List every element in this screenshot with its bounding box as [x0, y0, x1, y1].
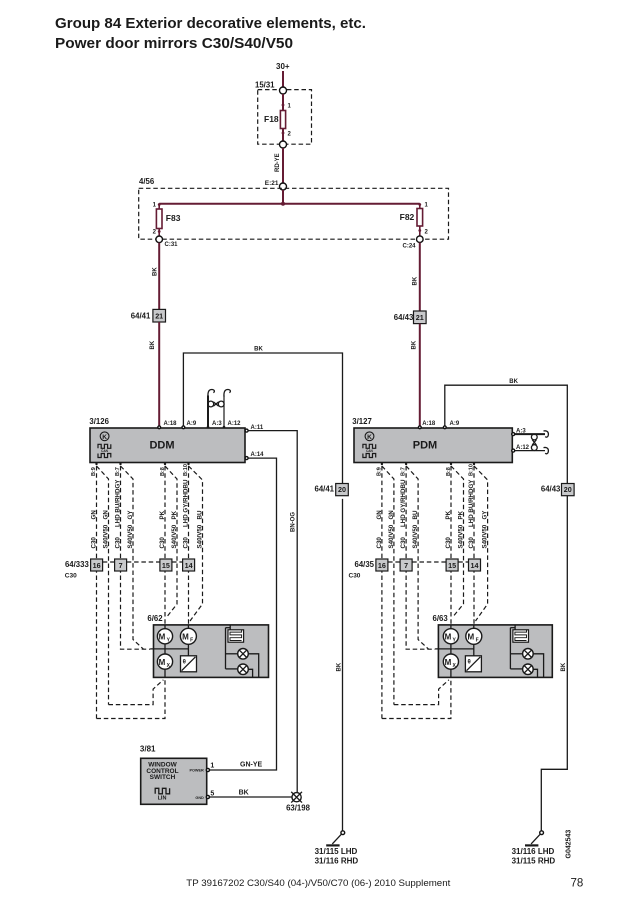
- wire dashed col3r C30 LHD GY/RHDBU: [400, 466, 435, 649]
- switch LIN symbol: [155, 788, 169, 801]
- wire dashed col6r S40/V50 PK: [451, 466, 465, 618]
- svg-text:E:21: E:21: [265, 180, 279, 187]
- svg-text:BK: BK: [412, 276, 418, 285]
- svg-text:63/198: 63/198: [286, 804, 311, 813]
- svg-text:BK: BK: [150, 340, 156, 349]
- wire dashed col2r S40/V50 GN: [382, 466, 395, 705]
- PDM CAN symbol: [363, 444, 376, 457]
- svg-text:15: 15: [448, 561, 456, 570]
- svg-text:7: 7: [119, 561, 123, 570]
- svg-text:64/41: 64/41: [314, 485, 334, 494]
- svg-text:PK: PK: [445, 510, 452, 519]
- svg-text:S40/V50: S40/V50: [482, 524, 489, 548]
- svg-text:GY: GY: [482, 510, 489, 520]
- mirror assembly 6/63: [433, 614, 553, 677]
- svg-text:BU: BU: [197, 510, 204, 519]
- svg-text:2: 2: [153, 230, 157, 236]
- wire dashed col8r S40/V50 GY: [474, 466, 489, 621]
- left chassis ground 31/115: [315, 831, 359, 866]
- DDM CAN symbol: [98, 444, 111, 457]
- wire bus F83-F82: [159, 203, 420, 205]
- svg-text:BK: BK: [152, 267, 158, 276]
- wire GN-YE switch to A:14 riser: [240, 761, 263, 768]
- svg-text:C30: C30: [159, 537, 166, 549]
- svg-text:PDM: PDM: [413, 440, 437, 452]
- PDM pin A:12: [512, 445, 530, 452]
- svg-text:DDM: DDM: [149, 440, 174, 452]
- svg-text:21: 21: [155, 311, 163, 320]
- wire dashed col8 S40/V50 BU: [189, 466, 204, 621]
- wire BK C:31 to connector 64/41: [152, 243, 159, 309]
- svg-text:C30: C30: [183, 537, 190, 549]
- node C:24: [402, 236, 423, 250]
- wire dashed MX return col1r: [382, 680, 451, 719]
- svg-text:15: 15: [162, 561, 170, 570]
- svg-text:S40/V50: S40/V50: [171, 524, 178, 548]
- wire 30+ feed: [282, 71, 284, 87]
- lamp 2 6/62: [238, 664, 249, 675]
- svg-text:CAN: CAN: [101, 449, 109, 453]
- connector 64/43 pin 20: [541, 484, 574, 496]
- svg-text:64/43: 64/43: [394, 313, 414, 322]
- node E:21: [265, 180, 287, 190]
- svg-text:31/116 LHD: 31/116 LHD: [512, 847, 555, 856]
- svg-text:1: 1: [288, 104, 292, 110]
- svg-text:GY: GY: [127, 510, 134, 520]
- svg-text:64/41: 64/41: [131, 312, 151, 321]
- svg-text:BK: BK: [337, 662, 343, 671]
- svg-text:θ: θ: [467, 660, 470, 666]
- svg-text:G042543: G042543: [566, 830, 573, 859]
- wire dashed col7r C30 LHD BU/RHDGY: [468, 466, 475, 625]
- svg-text:θ: θ: [183, 660, 186, 666]
- svg-text:20: 20: [338, 485, 346, 494]
- wire RD-YE to E:21: [275, 148, 283, 183]
- svg-text:F18: F18: [264, 114, 279, 124]
- svg-text:BU: BU: [412, 510, 419, 519]
- svg-text:C:24: C:24: [402, 244, 416, 250]
- connector 64/41 pin 20: [314, 484, 348, 496]
- svg-text:GN: GN: [91, 510, 98, 520]
- twisted pair PDM A:3 A:12: [514, 431, 549, 454]
- fuse F83: [153, 203, 181, 237]
- svg-text:3/81: 3/81: [140, 744, 156, 753]
- lamp 1 6/63: [523, 649, 534, 660]
- wire dashed col3 C30 LHD BU/RHDGY: [115, 466, 151, 649]
- DDM pin A:14: [245, 452, 264, 460]
- svg-text:TP 39167202 C30/S40 (04-)/V50/: TP 39167202 C30/S40 (04-)/V50/C70 (06-) …: [186, 878, 451, 888]
- wire dashed col4r S40/V50 BU: [406, 466, 429, 649]
- wire dashed col5 C30 PK: [159, 466, 166, 625]
- DDM pin A:11: [245, 425, 264, 432]
- motor MX 6/63: [443, 644, 458, 678]
- wire BK 64/43 to PDM A:18: [411, 324, 419, 427]
- switch pin POWER 1: [189, 763, 214, 773]
- svg-text:SWITCH: SWITCH: [150, 774, 176, 781]
- motor MX 6/62: [157, 644, 172, 678]
- PDM pin labels bottom: [376, 463, 475, 476]
- svg-text:A:12: A:12: [228, 421, 242, 427]
- svg-text:BK: BK: [254, 347, 263, 353]
- svg-text:S40/V50: S40/V50: [412, 524, 419, 548]
- svg-text:Power door mirrors C30/S40/V50: Power door mirrors C30/S40/V50: [55, 36, 293, 52]
- svg-text:M: M: [159, 658, 166, 667]
- wire dashed col7 C30 LHD GY/RHDBU: [183, 466, 190, 625]
- wire node to F18 pin 1: [282, 94, 284, 111]
- svg-text:64/35: 64/35: [354, 560, 374, 569]
- switch module 3/81: [140, 744, 207, 804]
- wire E:21 to bus: [282, 190, 284, 205]
- svg-text:31/116 RHD: 31/116 RHD: [315, 856, 359, 865]
- svg-text:2: 2: [425, 230, 429, 236]
- title: [55, 16, 366, 52]
- svg-text:1: 1: [210, 763, 214, 770]
- wire dashed M_X return col1: [97, 680, 166, 719]
- svg-text:PK: PK: [159, 510, 166, 519]
- wire dashed col2 S40/V50 GN: [97, 466, 110, 705]
- svg-text:C30: C30: [468, 537, 475, 549]
- svg-text:14: 14: [471, 561, 479, 570]
- wire F18 pin 2 to node: [282, 129, 284, 142]
- right chassis ground 31/116: [512, 831, 556, 866]
- PDM K symbol: [365, 432, 374, 441]
- svg-text:M: M: [182, 633, 189, 642]
- connector 64/333 C30 row: [65, 559, 195, 580]
- wire BK DDM A:9 to ground run: [183, 347, 342, 487]
- svg-text:M: M: [445, 658, 452, 667]
- svg-text:S40/V50: S40/V50: [127, 524, 134, 548]
- wire BK to right chassis ground: [541, 496, 567, 831]
- lamp wiring 6/63: [510, 628, 543, 678]
- svg-text:S40/V50: S40/V50: [388, 524, 395, 548]
- diagram id G042543: [566, 830, 573, 859]
- svg-text:LHD BU/RHDGY: LHD BU/RHDGY: [115, 479, 122, 527]
- svg-text:S40/V50: S40/V50: [103, 524, 110, 548]
- svg-text:LHD GY/RHDBU: LHD GY/RHDBU: [183, 479, 190, 527]
- svg-text:BK: BK: [411, 340, 417, 349]
- lamp 2 6/63: [523, 664, 534, 675]
- svg-text:GN: GN: [103, 510, 110, 520]
- svg-text:M: M: [467, 633, 474, 642]
- svg-text:PK: PK: [458, 510, 465, 519]
- node at 15/31 output: [280, 141, 287, 148]
- node C:31: [156, 236, 178, 248]
- svg-text:M: M: [159, 633, 166, 642]
- DDM K symbol: [100, 432, 109, 441]
- wire MF bottom and left stub 6/62: [150, 644, 188, 656]
- svg-text:C30: C30: [349, 573, 361, 580]
- svg-text:F83: F83: [166, 213, 181, 223]
- svg-text:Group 84 Exterior decorative e: Group 84 Exterior decorative elements, e…: [55, 16, 366, 32]
- svg-text:6/63: 6/63: [433, 614, 449, 623]
- svg-text:C:31: C:31: [165, 242, 179, 248]
- fuse F18: [264, 104, 292, 138]
- DDM pin labels top: [158, 421, 241, 429]
- svg-text:F: F: [476, 638, 479, 644]
- svg-text:C30: C30: [65, 573, 77, 580]
- svg-text:C30: C30: [91, 537, 98, 549]
- DDM pin labels bottom: [91, 463, 190, 476]
- wire BK 64/41 to DDM A:18: [150, 322, 159, 427]
- connector 64/35 C30 row: [349, 559, 481, 580]
- svg-text:4/56: 4/56: [139, 177, 155, 186]
- svg-text:M: M: [445, 633, 452, 642]
- svg-text:F82: F82: [400, 212, 415, 222]
- svg-text:BK: BK: [239, 790, 249, 797]
- wire dashed col1r C30 GN: [376, 466, 383, 719]
- svg-text:21: 21: [416, 313, 424, 322]
- mirror assembly 6/62: [147, 614, 268, 677]
- svg-text:3/127: 3/127: [352, 417, 372, 426]
- motor MF 6/62: [180, 625, 196, 644]
- svg-text:GN: GN: [376, 510, 383, 520]
- svg-text:31/115 LHD: 31/115 LHD: [315, 847, 358, 856]
- lamp 1 6/62: [238, 649, 249, 660]
- node 30+ supply label: [276, 62, 290, 71]
- svg-text:3/126: 3/126: [89, 417, 109, 426]
- svg-text:LHD BU/RHDGY: LHD BU/RHDGY: [468, 479, 475, 527]
- svg-text:BK: BK: [509, 379, 518, 385]
- svg-text:C30: C30: [376, 537, 383, 549]
- svg-text:20: 20: [564, 485, 572, 494]
- svg-text:15/31: 15/31: [255, 81, 275, 90]
- wire MF bottom and left stub 6/63: [435, 644, 474, 656]
- node at 15/31 input: [280, 87, 287, 94]
- twisted pair DDM A:3 A:12: [208, 389, 230, 428]
- svg-text:1: 1: [425, 203, 429, 209]
- svg-text:A:14: A:14: [251, 452, 265, 458]
- wire dashed col6 S40/V50 PK: [165, 466, 178, 618]
- svg-text:1: 1: [153, 203, 157, 209]
- ground point 63/198: [286, 792, 311, 813]
- wire BN-OG DDM A:11 to ground point 63/198: [248, 431, 298, 793]
- svg-text:C30: C30: [115, 537, 122, 549]
- svg-text:S40/V50: S40/V50: [458, 524, 465, 548]
- svg-text:14: 14: [185, 561, 193, 570]
- PDM pin A:3: [512, 428, 527, 435]
- lamp wiring 6/62: [226, 628, 259, 678]
- heater element 6/63: [513, 625, 529, 642]
- svg-text:GND: GND: [195, 796, 204, 800]
- svg-text:A:3: A:3: [516, 428, 526, 434]
- svg-text:64/43: 64/43: [541, 485, 561, 494]
- svg-text:PK: PK: [171, 510, 178, 519]
- fuse F82: [400, 203, 429, 237]
- svg-text:S40/V50: S40/V50: [197, 524, 204, 548]
- PDM pin labels top: [418, 421, 459, 429]
- svg-text:CAN: CAN: [366, 449, 374, 453]
- svg-text:30+: 30+: [276, 62, 290, 71]
- wire BK to left chassis ground: [337, 499, 343, 831]
- svg-text:LIN: LIN: [158, 796, 167, 802]
- temp sensor 6/63: [465, 656, 481, 672]
- svg-text:A:9: A:9: [450, 421, 460, 427]
- motor MF 6/63: [466, 625, 482, 644]
- temp sensor 6/62: [181, 656, 197, 672]
- svg-text:LHD GY/RHDBU: LHD GY/RHDBU: [400, 479, 407, 527]
- wire dashed col5r C30 PK: [445, 466, 452, 625]
- svg-text:RD-YE: RD-YE: [275, 153, 281, 172]
- svg-text:F: F: [190, 638, 193, 644]
- svg-text:78: 78: [571, 878, 584, 890]
- svg-text:A:18: A:18: [422, 421, 436, 427]
- svg-text:6/62: 6/62: [147, 614, 163, 623]
- svg-text:K: K: [102, 434, 107, 441]
- junction box 4/56 dashed enclosure: [139, 177, 449, 239]
- svg-text:16: 16: [378, 561, 386, 570]
- svg-text:C30: C30: [400, 537, 407, 549]
- svg-text:C30: C30: [445, 537, 452, 549]
- wire dashed col1 C30 GN: [91, 466, 98, 719]
- wire dashed M_X return col2: [109, 680, 164, 705]
- wire dashed MX return col2r: [394, 680, 449, 705]
- svg-text:A:12: A:12: [516, 445, 530, 451]
- svg-text:A:9: A:9: [187, 421, 197, 427]
- wire dashed col4 S40/V50 GY: [121, 466, 144, 649]
- switch pin GND 5: [195, 790, 214, 799]
- module PDM 3/127: [352, 417, 512, 463]
- heater element 6/62: [228, 625, 244, 642]
- module DDM 3/126: [89, 417, 245, 463]
- motor MY 6/63: [443, 625, 458, 644]
- svg-text:K: K: [367, 434, 372, 441]
- svg-text:BK: BK: [561, 662, 567, 671]
- svg-text:7: 7: [404, 561, 408, 570]
- wire BK C:24 to connector 64/43: [412, 243, 419, 312]
- svg-text:2: 2: [288, 132, 292, 138]
- wire BK switch to ground point: [209, 790, 292, 798]
- svg-text:A:11: A:11: [251, 425, 264, 431]
- svg-text:16: 16: [93, 561, 101, 570]
- svg-text:64/333: 64/333: [65, 560, 90, 569]
- svg-text:POWER: POWER: [189, 769, 204, 773]
- svg-text:GN: GN: [388, 510, 395, 520]
- svg-text:31/115 RHD: 31/115 RHD: [512, 856, 556, 865]
- motor MY 6/62: [157, 625, 172, 644]
- svg-text:GN-YE: GN-YE: [240, 761, 263, 768]
- wire BK PDM A:9 to right ground run: [445, 379, 568, 484]
- svg-text:A:3: A:3: [212, 421, 222, 427]
- svg-text:BN-OG: BN-OG: [291, 512, 297, 532]
- connector 64/43 pin 21: [394, 311, 426, 324]
- footer: [186, 878, 583, 890]
- fusebox 15/31 dashed enclosure: [255, 81, 312, 145]
- wire DDM A:14 to switch: [209, 458, 277, 770]
- junction node: [281, 202, 285, 206]
- connector 64/41 pin 21: [131, 309, 166, 322]
- svg-text:A:18: A:18: [164, 421, 178, 427]
